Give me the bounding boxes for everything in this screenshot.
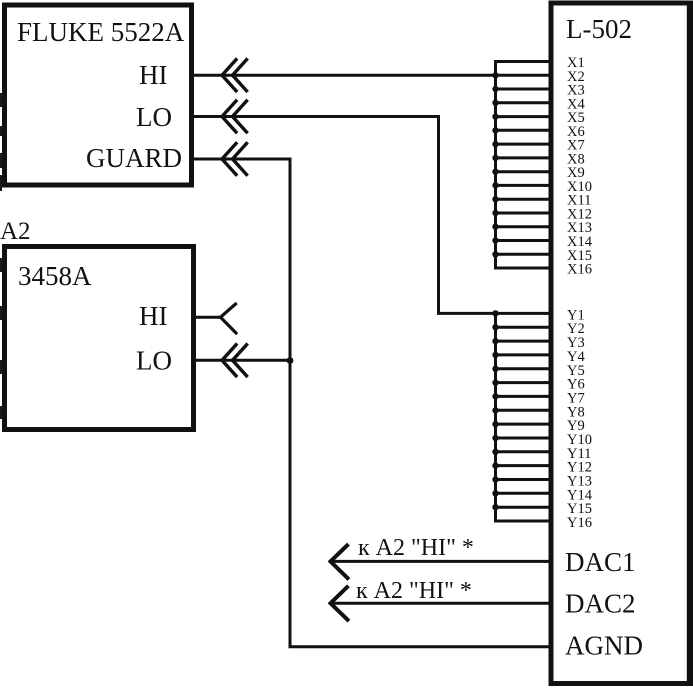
wire stub X9 [496, 170, 553, 173]
connector double chevron FLUKE HI [222, 60, 247, 91]
wire FLUKE LO to Y1 [194, 117, 552, 314]
junction dot Y14 [492, 490, 498, 496]
svg-text:A2: A2 [0, 218, 31, 245]
svg-text:AGND: AGND [565, 631, 643, 661]
svg-text:DAC1: DAC1 [565, 547, 636, 577]
junction dot Y7 [492, 393, 498, 399]
board L-502 box [551, 3, 690, 684]
wire 3458A LO to GUARD line [194, 359, 290, 362]
multimeter A2 3458A box [5, 247, 194, 430]
junction dot X12 [492, 210, 498, 216]
svg-text:к A2 "HI" *: к A2 "HI" * [356, 578, 472, 604]
scan artifacts (decorative left margin) [0, 93, 2, 107]
wire stub Y10 [496, 437, 553, 440]
wire stub X15 [496, 253, 553, 256]
wire stub Y12 [496, 464, 553, 467]
svg-text:Y16: Y16 [567, 515, 592, 531]
junction dot X13 [492, 224, 498, 230]
svg-text:3458A: 3458A [18, 261, 92, 291]
wire stub Y11 [496, 450, 553, 453]
wire stub X12 [496, 212, 553, 215]
junction dot X2 [492, 72, 498, 78]
wire stub Y9 [496, 423, 553, 426]
junction dot Y1 [492, 310, 498, 316]
svg-text:L-502: L-502 [566, 14, 632, 44]
connector double chevron 3458A LO [222, 345, 247, 376]
junction dot Y12 [492, 462, 498, 468]
wire stub X8 [496, 156, 553, 159]
arrow DAC1 [331, 546, 348, 579]
junction dot X9 [492, 169, 498, 175]
svg-text:LO: LO [136, 102, 172, 132]
wire FLUKE HI to X2 bus [194, 74, 552, 77]
junction dot Y15 [492, 504, 498, 510]
svg-text:LO: LO [136, 346, 172, 376]
calibrator FLUKE 5522A box [5, 5, 192, 185]
wire stub X11 [496, 198, 553, 201]
junction dot Y2 [492, 324, 498, 330]
junction dot Y11 [492, 449, 498, 455]
wire stub Y13 [496, 478, 553, 481]
junction dot X3 [492, 86, 498, 92]
svg-text:к A2 "HI" *: к A2 "HI" * [358, 535, 474, 561]
arrow DAC2 [331, 587, 348, 620]
wire DAC2 [331, 602, 552, 605]
connector double chevron FLUKE LO [222, 101, 247, 132]
wire 3458A HI stub [194, 316, 221, 319]
svg-text:HI: HI [139, 60, 168, 90]
wire stub Y5 [496, 367, 553, 370]
junction dot Y8 [492, 407, 498, 413]
wire stub X7 [496, 143, 553, 146]
junction dot GUARD/3458A-LO [287, 357, 294, 364]
junction dot X6 [492, 127, 498, 133]
junction dot X8 [492, 155, 498, 161]
svg-text:DAC2: DAC2 [565, 589, 636, 619]
junction dot Y9 [492, 421, 498, 427]
junction dot X5 [492, 113, 498, 119]
svg-text:FLUKE 5522A: FLUKE 5522A [17, 17, 185, 47]
junction dot X11 [492, 196, 498, 202]
wire stub Y7 [496, 395, 553, 398]
wire stub X4 [496, 101, 553, 104]
junction dot X10 [492, 182, 498, 188]
junction dot Y5 [492, 366, 498, 372]
junction dot Y4 [492, 352, 498, 358]
connector double chevron GUARD [222, 144, 247, 175]
wire stub Y6 [496, 381, 553, 384]
junction dot Y3 [492, 338, 498, 344]
wire stub X6 [496, 129, 553, 132]
junction dot Y10 [492, 435, 498, 441]
wire DAC1 [331, 560, 552, 563]
X bus vertical [496, 62, 553, 269]
wire stub Y8 [496, 409, 553, 412]
wire stub X10 [496, 184, 553, 187]
junction dot X4 [492, 100, 498, 106]
svg-text:X16: X16 [567, 262, 592, 278]
connector single chevron 3458A HI [221, 304, 237, 333]
wire stub Y4 [496, 353, 553, 356]
wire stub X13 [496, 225, 553, 228]
wire stub Y2 [496, 326, 553, 329]
wire stub X5 [496, 115, 553, 118]
wire stub Y3 [496, 340, 553, 343]
junction dot Y13 [492, 476, 498, 482]
wire GUARD to AGND [194, 159, 552, 647]
Y bus vertical [496, 313, 553, 521]
wire stub Y15 [496, 506, 553, 509]
wire stub X14 [496, 239, 553, 242]
junction dot X15 [492, 251, 498, 257]
junction dot X14 [492, 237, 498, 243]
junction dot Y6 [492, 379, 498, 385]
wire stub Y14 [496, 492, 553, 495]
svg-text:GUARD: GUARD [86, 143, 182, 173]
junction dot X7 [492, 141, 498, 147]
wire stub X3 [496, 88, 553, 91]
svg-text:HI: HI [139, 301, 168, 331]
